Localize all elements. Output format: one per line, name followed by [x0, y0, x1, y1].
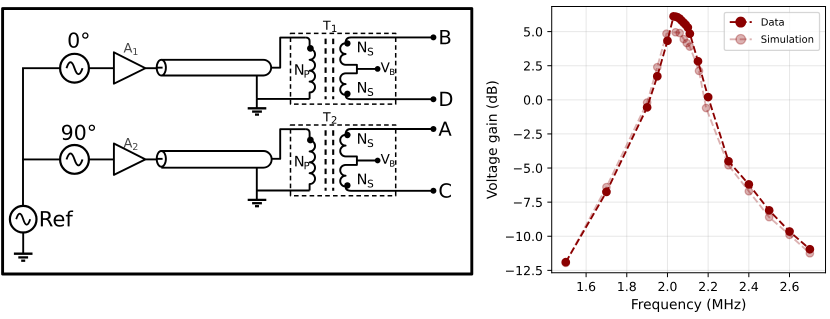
transformer T1 primary winding NP: [295, 38, 315, 99]
0.0: [524, 95, 542, 104]
transformer T2 primary winding NP: [295, 129, 315, 190]
wire: coax2 shield down: [256, 168, 258, 191]
coax cable 2: [156, 151, 272, 168]
node C: [430, 183, 451, 198]
node D: [430, 92, 452, 106]
node B: [430, 30, 450, 44]
ground (coax 1 / T1): [248, 99, 267, 115]
Voltage gain (dB): [486, 81, 499, 199]
wire: T2 center tap to VB: [357, 160, 376, 162]
dot: T2 secondary bottom phase: [344, 182, 350, 188]
2.0: [658, 282, 676, 291]
5.0: [524, 27, 542, 36]
source V2 90-deg: [60, 125, 95, 174]
source V1 0-deg: [60, 32, 89, 82]
wire: shield junction to T1 primary bottom: [257, 98, 310, 100]
2.2: [699, 282, 717, 291]
−5.0: [514, 164, 542, 173]
1.6: [578, 282, 596, 291]
transformer T1 secondary winding NS (top): [340, 37, 431, 99]
transformer T1 core: [326, 39, 334, 100]
transformer T2 dashed box: [291, 125, 396, 196]
2.5: [524, 61, 542, 70]
dot: T1 secondary top phase: [344, 40, 350, 46]
−10.0: [506, 232, 542, 241]
dot: T1 primary phase: [307, 45, 314, 52]
border frame: [3, 9, 472, 274]
dot: T2 secondary top phase: [344, 132, 350, 138]
2.6: [780, 282, 798, 291]
wire: A2 apex to coax 2: [145, 158, 157, 160]
transformer T1 label: [323, 21, 336, 32]
wire: shield junction to T2 primary bottom: [257, 190, 310, 192]
−2.5: [514, 129, 542, 138]
transformer T2 secondary winding NS (top): [340, 129, 431, 191]
dot: T2 primary phase: [307, 137, 314, 144]
transformer T2 core: [326, 130, 334, 191]
wire: 0-deg source to amp A1: [89, 67, 114, 69]
1.8: [618, 282, 636, 291]
wire: 90-deg source to amp A2: [89, 158, 114, 160]
transformer T2 label: [323, 112, 336, 123]
wire: bus to 0-deg source: [22, 67, 60, 69]
transformer T1 dashed box: [291, 33, 396, 104]
−7.5: [514, 198, 542, 207]
op-amp A1: [114, 43, 145, 84]
Simulation: [761, 35, 813, 43]
node VB (T1): [375, 62, 395, 75]
source Ref: [10, 206, 73, 233]
wire: bus vertical: [22, 68, 24, 206]
node A: [430, 122, 451, 136]
wire: coax1 shield down: [256, 76, 258, 99]
ground (Ref source): [14, 233, 33, 261]
wire: T1 center tap to VB: [357, 68, 376, 70]
wire: bus to 90-deg source: [22, 158, 60, 160]
Data: [762, 18, 784, 25]
Frequency (MHz): [632, 299, 745, 312]
−12.5: [506, 266, 542, 275]
ground (coax 2 / T2): [248, 191, 267, 207]
dot: T1 secondary bottom phase: [344, 91, 350, 97]
node VB (T2): [375, 154, 395, 167]
wire: coax1 center to T1 primary top: [271, 38, 306, 68]
coax cable 1: [156, 60, 271, 76]
wire: A1 apex to coax 1: [145, 67, 157, 69]
op-amp A2: [114, 138, 145, 175]
wire: coax2 center to T2 primary top: [271, 129, 306, 159]
2.4: [740, 282, 758, 291]
